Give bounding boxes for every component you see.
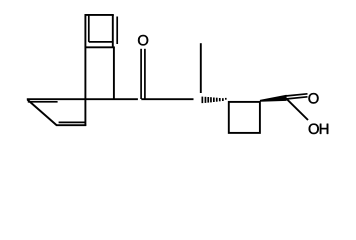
wire: hashed stereo bond ticks — [202, 97, 227, 104]
node: carboxyl oxygen label O — [308, 93, 318, 103]
wire: square ring B top bond — [85, 14, 114, 16]
wire: main chain right segment — [141, 98, 193, 100]
wire: square ring B bottom bond — [85, 46, 115, 48]
node: ketone oxygen label O — [138, 35, 148, 45]
node: hydroxyl label OH — [309, 124, 319, 134]
wire: square ring B left inner double-bond line — [88, 15, 90, 42]
wire: ring A bottom double-bond inner line — [59, 121, 85, 123]
wire: ring A diagonal bond — [27, 100, 56, 126]
node: hydroxyl label H — [320, 124, 328, 134]
wire: C-OH single bond — [286, 98, 308, 120]
wire: ring A bottom bond — [56, 124, 86, 126]
wire: methyl vertical bond — [200, 43, 202, 93]
wire: carboxyl C=O double bond line 2 — [286, 97, 308, 99]
wire: ketone C=O double bond line 2 — [144, 49, 146, 99]
wire: ketone C=O double bond line 1 — [140, 49, 142, 99]
wire: carboxyl C=O double bond line 1 — [286, 94, 308, 96]
wire: vertical bond from square ring B down to chain — [113, 47, 115, 99]
wire: square ring B bottom inner double-bond line — [89, 41, 113, 43]
wire: long vertical bond (square ring left edge down to ring A) — [84, 14, 86, 126]
wire: cyclobutane ring C (square) — [229, 102, 260, 133]
wire: square ring B right bond — [112, 15, 114, 47]
wire: solid wedge bond to carboxyl carbon — [260, 95, 287, 102]
wire: ring A top double-bond inner line — [28, 101, 58, 103]
wire: main chain left segment (ring top edge to carbonyl) — [27, 98, 138, 100]
wire: square ring B right outer double-bond line — [116, 17, 118, 45]
